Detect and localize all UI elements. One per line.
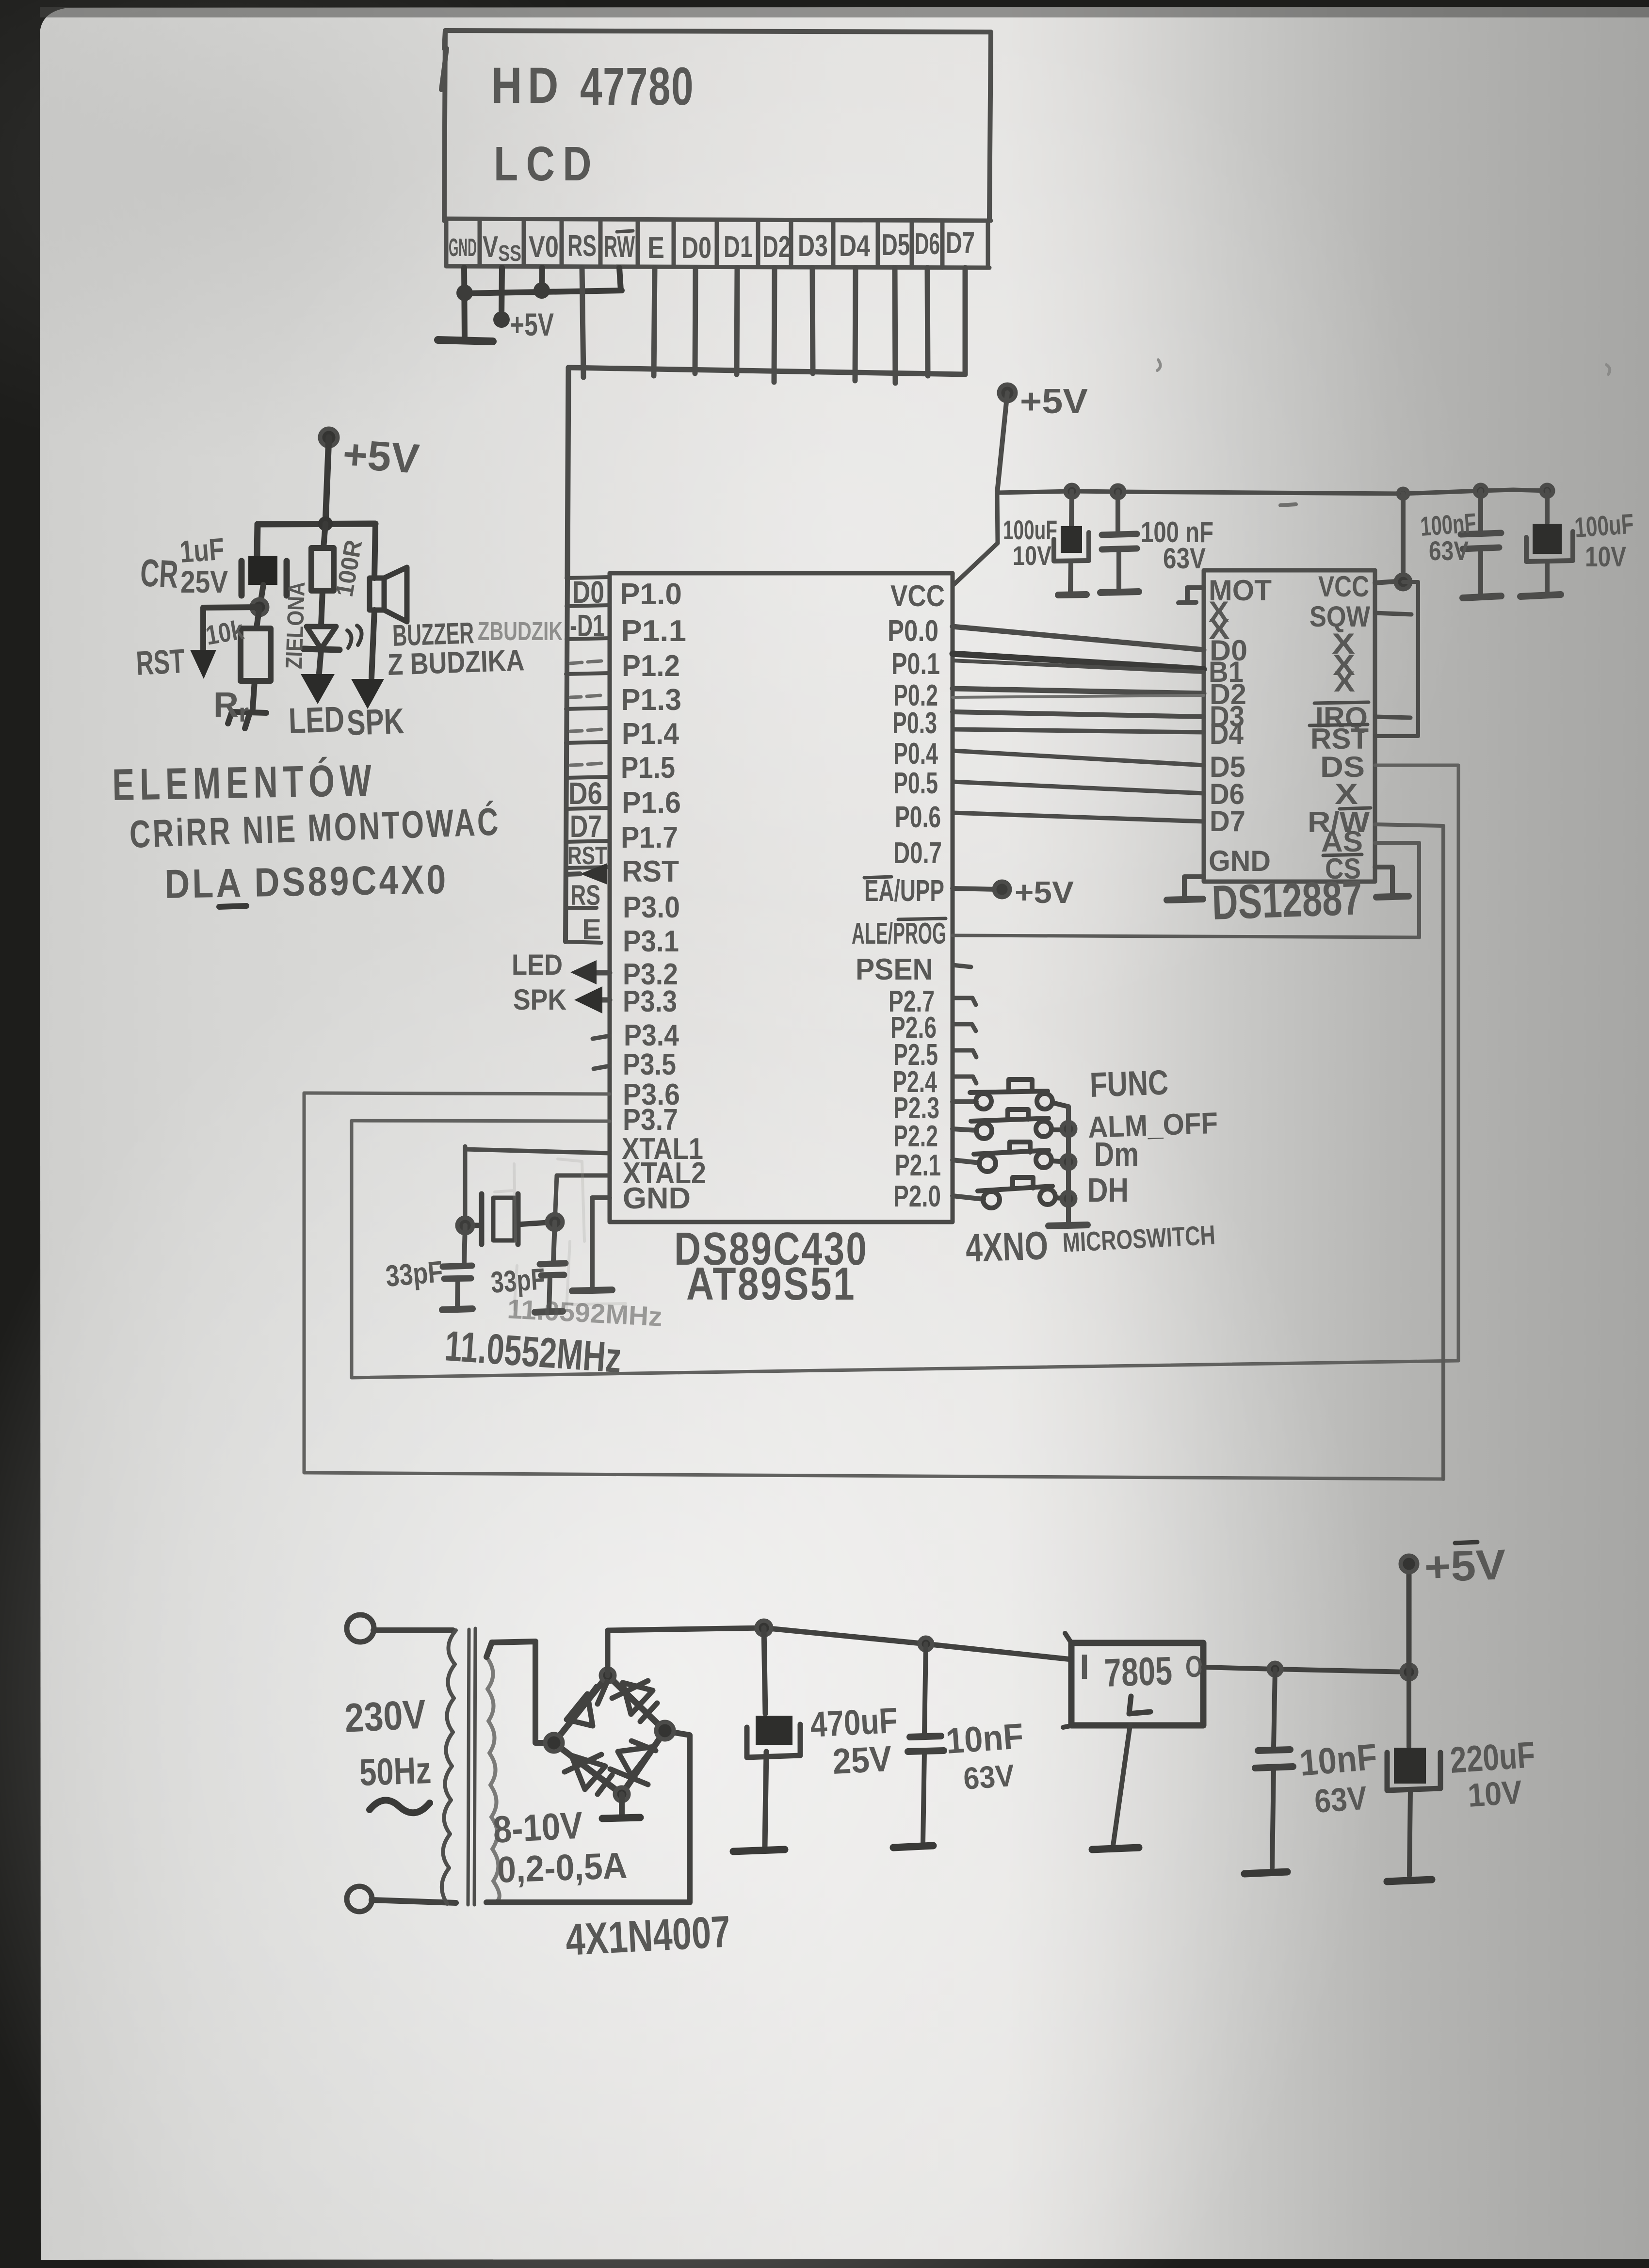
svg-text:VCC: VCC	[890, 579, 945, 613]
stub P3.5	[594, 1066, 610, 1069]
stub PSEN	[953, 965, 971, 967]
svg-text:10nF: 10nF	[944, 1716, 1024, 1761]
wire P3.7 to inner loop	[352, 1121, 610, 1121]
svg-text:SPK: SPK	[346, 701, 405, 743]
GND pin bracket to ground	[1184, 877, 1204, 898]
MCU right internal labels	[852, 579, 946, 1213]
svg-text:10V: 10V	[1585, 541, 1626, 573]
wire LCD D6 down to bus	[927, 268, 928, 376]
switch S1 FUNC	[970, 1079, 1068, 1109]
svg-text:0,2-0,5A: 0,2-0,5A	[497, 1845, 628, 1891]
junction crystal right	[547, 1214, 563, 1230]
svg-text:+5V: +5V	[1423, 1540, 1507, 1591]
svg-text:DS12887: DS12887	[1211, 870, 1363, 930]
wire P2.2 to switch S2	[953, 1129, 977, 1130]
svg-text:DH: DH	[1087, 1171, 1129, 1209]
node +5V top right	[999, 385, 1016, 401]
junction S3 on common	[1062, 1155, 1075, 1169]
end bar Rr lead	[228, 712, 266, 728]
svg-text:P3.1: P3.1	[623, 925, 679, 958]
svg-text:RST: RST	[135, 642, 186, 682]
wire P2.0 to switch S4	[953, 1196, 984, 1199]
diode D1 top-left	[566, 1682, 607, 1726]
overline RST	[1309, 724, 1368, 725]
junction dot GND wire	[456, 285, 473, 301]
switch S4 DH	[978, 1177, 1068, 1208]
wire VCC-RST tie bracket	[1375, 582, 1418, 736]
svg-text:8-10V: 8-10V	[492, 1803, 583, 1851]
svg-text:+5V: +5V	[1015, 875, 1074, 910]
node bridge bottom	[615, 1787, 629, 1801]
arrow RST output	[190, 650, 216, 679]
svg-text:HD: HD	[491, 57, 564, 114]
wire ALE/PROG to AS long link	[953, 935, 1419, 937]
wire secondary top to bridge left	[486, 1641, 553, 1743]
svg-text:P1.0: P1.0	[620, 578, 682, 611]
ground bar C3	[1463, 596, 1501, 598]
ground bar C1	[1058, 595, 1086, 595]
resistor 100R for LED	[323, 524, 325, 548]
svg-text:P1.7: P1.7	[621, 821, 678, 854]
arrow SPK output	[351, 679, 384, 709]
capacitor C1 100uF/10V electrolytic	[1071, 491, 1072, 526]
wire XTAL1 left	[465, 1149, 610, 1153]
junction dot V0 wire	[533, 282, 550, 299]
bus wire P0.7-D7	[953, 813, 1204, 821]
svg-text:P1.3: P1.3	[621, 683, 681, 717]
svg-text:+5V: +5V	[1020, 382, 1088, 421]
ground bar C4	[1520, 595, 1561, 596]
svg-text:RST: RST	[1310, 723, 1369, 755]
ground bar switch common	[1049, 1225, 1087, 1226]
stub P2.4	[953, 1077, 976, 1083]
bus wire P0.6-D6	[953, 782, 1204, 793]
junction CR-Rr-RST	[252, 599, 267, 615]
wire secondary bottom to bridge right	[486, 1731, 690, 1902]
junction rail-RTC VCC	[1398, 489, 1408, 499]
svg-text:D3: D3	[798, 229, 828, 263]
svg-text:D0: D0	[681, 231, 711, 265]
node bridge top	[601, 1669, 614, 1682]
wire terminal to primary top	[373, 1627, 453, 1633]
svg-text:P2.0: P2.0	[893, 1180, 941, 1213]
svg-text:D7: D7	[570, 809, 602, 844]
label AC tilde	[370, 1800, 430, 1813]
wire LCD D1 down to bus	[737, 268, 737, 374]
svg-text:D5: D5	[882, 228, 910, 262]
svg-text:P0.1: P0.1	[891, 647, 940, 681]
svg-text:10k: 10k	[203, 614, 246, 651]
svg-text:4XNO: 4XNO	[965, 1223, 1049, 1271]
stub IRQ	[1375, 717, 1410, 718]
svg-text:DLA DS89C4X0: DLA DS89C4X0	[164, 856, 449, 907]
wire RTC DS right and down to inner loop	[1375, 765, 1458, 1361]
wire LCD E down to bus	[654, 268, 655, 376]
svg-text:ALE/PROG: ALE/PROG	[852, 917, 946, 950]
svg-text:D6: D6	[568, 776, 602, 811]
LCD pin labels GND Vss V0 RS RW E D0-D7	[449, 226, 975, 266]
transformer TR1 primary terminal bottom	[347, 1886, 372, 1912]
stub P2.6	[953, 1024, 976, 1031]
wire RTC VCC to rail	[1375, 494, 1403, 583]
svg-text:25V: 25V	[831, 1738, 892, 1782]
svg-text:P3.5: P3.5	[623, 1048, 676, 1081]
wire RTC CS to ground	[1375, 867, 1392, 895]
svg-text:O: O	[1185, 1650, 1203, 1684]
wire LCD V0 down	[542, 268, 542, 290]
wire P3.6 to outer loop	[304, 1093, 610, 1094]
svg-text:EA/UPP: EA/UPP	[864, 874, 944, 908]
wire down to CR cap	[257, 524, 258, 557]
resistor Rr 10k	[257, 607, 259, 627]
junction rail-C7	[1269, 1663, 1281, 1675]
svg-text:SPK: SPK	[513, 983, 566, 1016]
wire RTC R/W right and down to outer loop	[1375, 824, 1443, 1479]
wire 7805 gnd down	[1113, 1725, 1130, 1846]
svg-text:10nF: 10nF	[1298, 1736, 1379, 1784]
svg-text:X: X	[1334, 665, 1355, 698]
junction +5V on link	[318, 516, 333, 531]
node +5V under Vss	[493, 311, 510, 328]
arrow SPK at P3.3	[574, 986, 602, 1013]
svg-text:P0.6: P0.6	[895, 801, 941, 834]
svg-text:P0.5: P0.5	[893, 767, 938, 800]
svg-text:63V: 63V	[962, 1758, 1016, 1796]
bus wire P0.3-D3	[953, 712, 1204, 717]
svg-text:FUNC: FUNC	[1089, 1063, 1169, 1105]
transformer TR1 primary winding	[442, 1630, 456, 1904]
node bridge left	[545, 1734, 563, 1752]
svg-text:E: E	[647, 231, 664, 265]
junction rail-C1	[1066, 485, 1078, 498]
capacitor C7 10nF/63V	[1274, 1669, 1275, 1748]
wire MCU P3.2 to LED arrow	[588, 970, 610, 976]
svg-text:P0.0: P0.0	[888, 614, 938, 648]
wire +5V riser	[1406, 1565, 1412, 1672]
svg-text:D4: D4	[839, 229, 870, 263]
capacitor C8 220uF/10V electrolytic	[1406, 1672, 1411, 1747]
wire P2.1 to switch S3	[953, 1160, 980, 1163]
svg-text:P3.4: P3.4	[624, 1019, 679, 1052]
RTC U2 DS12887 box	[1204, 570, 1375, 882]
svg-text:D6: D6	[915, 227, 940, 261]
svg-text:P2.2: P2.2	[893, 1120, 938, 1153]
MCU U1 DS89C430/AT89S51 box	[610, 573, 953, 1222]
junction rail-C3	[1475, 485, 1487, 497]
ground bar C2	[1100, 592, 1139, 593]
svg-text:I: I	[1080, 1648, 1089, 1687]
MCU left internal labels P1.0-P1.7 RST P3.0-P3.7 XTAL GND	[620, 578, 706, 1215]
capacitor CR 1uF/25V electrolytic	[242, 561, 287, 595]
diode D4 bottom-right	[610, 1741, 656, 1785]
stub P3.4	[593, 1036, 610, 1039]
svg-text:P1.6: P1.6	[622, 786, 681, 820]
ground bar 7805	[1092, 1848, 1139, 1850]
RTC right labels	[1308, 570, 1370, 885]
svg-text:P1.2: P1.2	[622, 649, 680, 683]
capacitor C3 100nF/63V	[1478, 491, 1483, 531]
junction rail-C5	[757, 1621, 771, 1635]
node +5V PSU output	[1401, 1556, 1417, 1572]
svg-text:-D1: -D1	[570, 608, 605, 643]
svg-text:4X1N4007: 4X1N4007	[565, 1907, 732, 1965]
outer return loop left/bottom (P3.6 to RTC R/W)	[304, 1093, 1443, 1479]
MOT pin bracket	[1179, 588, 1204, 603]
ground bar MCU GND	[572, 1290, 612, 1291]
ghost erased crystal sketch	[495, 1159, 626, 1309]
svg-text:X: X	[1335, 778, 1358, 810]
capacitor C2 100nF/63V	[1115, 492, 1120, 532]
ground bar C8	[1387, 1880, 1432, 1882]
svg-text:P2.1: P2.1	[895, 1149, 941, 1182]
bridge rectifier diamond	[554, 1675, 665, 1794]
node +5V left circuit	[320, 429, 338, 446]
svg-text:+5V: +5V	[510, 306, 554, 342]
wire LCD D2 down to bus	[774, 268, 775, 382]
wire EA/UPP to +5V	[953, 888, 998, 889]
svg-text:220uF: 220uF	[1449, 1734, 1536, 1781]
svg-text:P3.0: P3.0	[623, 891, 680, 924]
junction rail-C4	[1541, 485, 1553, 497]
transformer TR1 primary terminal top	[347, 1615, 374, 1642]
svg-text:AT89S51: AT89S51	[686, 1258, 856, 1310]
LCD pin header row	[444, 219, 991, 268]
wire LCD D0 down to bus	[695, 268, 695, 373]
wire XTAL2 left	[557, 1174, 610, 1178]
wire XTAL1 down to crystal	[463, 1146, 468, 1225]
wire LCD GND pin down	[438, 268, 622, 341]
capacitor C 33pF left	[464, 1225, 465, 1264]
svg-text:D7: D7	[1210, 805, 1245, 837]
wire switch common down	[1066, 1107, 1071, 1222]
wire LCD D4 down to bus	[855, 268, 856, 381]
diode D3 bottom-left	[565, 1754, 612, 1794]
7805 gnd pin hook	[1129, 1696, 1150, 1714]
svg-text:PSEN: PSEN	[856, 953, 933, 986]
bus wire P0.2-D2	[953, 689, 1204, 693]
LCD module HD47780 outline	[441, 31, 991, 221]
wire rail to MCU VCC	[954, 493, 998, 585]
ground bar bridge	[602, 1818, 640, 1818]
svg-text:D0: D0	[572, 575, 604, 610]
dash marks unused bus pins	[570, 661, 601, 765]
svg-text:Z BUDZIKA: Z BUDZIKA	[387, 643, 525, 682]
wire bridge top to DC rail	[608, 1628, 1071, 1675]
wire +5V drop to rail	[997, 393, 1007, 493]
svg-text:+5V: +5V	[341, 431, 421, 483]
overline EA	[864, 877, 891, 878]
LED D1 zielona	[307, 627, 336, 649]
RTC left labels	[1209, 574, 1272, 877]
svg-text:10V: 10V	[1467, 1773, 1523, 1814]
svg-text:63V: 63V	[1429, 535, 1469, 566]
svg-text:P1.4: P1.4	[622, 717, 679, 751]
stray pencil mark	[1280, 504, 1296, 505]
svg-text:RS: RS	[570, 880, 600, 911]
ground bar LCD GND	[438, 340, 493, 341]
wire LCD D5 down to bus	[895, 268, 895, 383]
svg-text:P0.4: P0.4	[893, 737, 938, 771]
svg-text:ELEMENTÓW: ELEMENTÓW	[112, 756, 377, 810]
svg-text:CR: CR	[139, 551, 179, 596]
wire 7805 output rail	[1203, 1667, 1409, 1672]
wire terminal to primary bottom	[372, 1900, 456, 1903]
inner return loop left/bottom (P3.7 to RTC DS)	[352, 1121, 1458, 1378]
svg-text:E: E	[582, 914, 601, 945]
wire RTC AS right and down to ALE	[1375, 843, 1419, 937]
bus wire P0.5-D5	[953, 751, 1204, 765]
svg-text:D1: D1	[724, 230, 753, 264]
node bridge right	[656, 1722, 674, 1739]
wire +5V down	[325, 437, 329, 524]
svg-text:D4: D4	[1210, 718, 1244, 750]
diode D2 top-right	[612, 1681, 657, 1721]
capacitor C5 470uF/25V electrolytic	[764, 1628, 765, 1714]
svg-text:P3.7: P3.7	[623, 1103, 678, 1137]
svg-text:D2: D2	[762, 230, 791, 264]
overline PROG	[898, 918, 946, 919]
ground bar 33pF left	[442, 1309, 472, 1310]
arrow LED output	[301, 674, 335, 704]
svg-text:63V: 63V	[1313, 1780, 1368, 1820]
wire +5V rail top right	[997, 490, 1547, 494]
wire junction to RST arrow	[203, 607, 259, 650]
junction rail-C8/+5V	[1402, 1665, 1416, 1679]
overline IRQ	[1314, 702, 1369, 703]
wire LCD D7 down to bus	[963, 268, 968, 374]
svg-text:P1.5: P1.5	[621, 751, 675, 785]
svg-text:D7: D7	[946, 226, 975, 260]
svg-text:7805: 7805	[1103, 1649, 1173, 1695]
junction RTC VCC	[1396, 575, 1410, 589]
svg-text:V0: V0	[529, 230, 559, 264]
stub P2.7	[953, 998, 976, 1005]
ground bar CS	[1376, 896, 1408, 897]
bus wire P0.1-D1 (heavy)	[953, 654, 1204, 669]
svg-text:Dm: Dm	[1094, 1135, 1139, 1173]
svg-text:GND: GND	[449, 234, 477, 262]
svg-text:25V: 25V	[180, 564, 228, 599]
overline CS	[1323, 854, 1362, 855]
wire top link CR-LED-buzzer	[258, 524, 375, 524]
arrow LED at P3.2	[570, 960, 597, 984]
stub SQW	[1375, 613, 1411, 614]
svg-text:GND: GND	[623, 1182, 691, 1215]
stub P2.5	[953, 1050, 976, 1057]
junction S2 on common	[1062, 1122, 1075, 1136]
transformer TR1 secondary winding	[486, 1657, 500, 1902]
overline W of R/W	[1340, 808, 1371, 809]
ground bar 33pF right	[535, 1311, 563, 1312]
svg-text:33pF: 33pF	[384, 1255, 444, 1293]
bus wire P0.0-D0	[953, 627, 1204, 650]
svg-text:63V: 63V	[1163, 542, 1206, 575]
svg-text:GND: GND	[1209, 845, 1271, 877]
wire ground link GND-V0-RW	[465, 290, 622, 293]
bus wire P0.4-D4	[953, 729, 1204, 732]
ground bar RTC GND	[1167, 899, 1203, 900]
svg-text:10V: 10V	[1013, 540, 1051, 571]
wire LCD D3 down to bus	[812, 268, 813, 373]
svg-text:47780: 47780	[580, 57, 694, 116]
ground bar C6	[893, 1846, 933, 1848]
buzzer BZ1	[374, 524, 375, 578]
svg-text:ZBUDZIK: ZBUDZIK	[478, 617, 563, 646]
capacitor C 33pF right	[553, 1222, 555, 1262]
svg-text:RW: RW	[604, 230, 635, 264]
transformer core	[468, 1628, 475, 1905]
wire MCU P3.3 to SPK arrow	[601, 997, 610, 1003]
svg-text:P3.3: P3.3	[623, 985, 677, 1018]
capacitor C4 100uF/10V electrolytic	[1545, 491, 1550, 523]
svg-text:LCD: LCD	[494, 137, 599, 191]
ground bar C7	[1245, 1872, 1287, 1874]
overline RW	[617, 231, 633, 232]
svg-text:LED: LED	[288, 699, 345, 741]
regulator U3 7805 box	[1071, 1643, 1203, 1725]
svg-text:50Hz: 50Hz	[359, 1749, 432, 1794]
svg-text:230V: 230V	[343, 1691, 427, 1741]
node +5V at EA/UPP	[994, 882, 1010, 897]
wire LCD data bus horizontal	[568, 368, 965, 374]
svg-text:D0.7: D0.7	[893, 836, 942, 870]
wire LCD RS down to bus	[582, 268, 583, 377]
arrow RST into MCU	[580, 863, 607, 885]
wire bridge bottom to ground	[619, 1794, 625, 1815]
junction rail-C2	[1112, 485, 1124, 498]
svg-text:1uF: 1uF	[178, 531, 226, 569]
junction crystal left	[457, 1218, 473, 1233]
svg-text:470uF: 470uF	[809, 1700, 898, 1745]
ground bar C5	[733, 1850, 785, 1851]
wire LCD RW down-bend	[619, 268, 621, 290]
MCU left pin-box column rail	[566, 578, 567, 942]
overline 5	[1455, 1542, 1477, 1543]
sound wave marks	[347, 626, 362, 648]
paper shading highlight	[0, 873, 1382, 2268]
junction rail-C6	[920, 1638, 932, 1650]
crystal X1 11.0592MHz	[465, 1194, 555, 1244]
svg-text:LED: LED	[512, 949, 563, 981]
svg-text:RST: RST	[622, 855, 679, 888]
junction S4 on common	[1062, 1192, 1075, 1206]
svg-text:VCC: VCC	[1318, 570, 1369, 603]
wire LCD Vss to +5V	[501, 268, 502, 318]
svg-text:ZIELONA: ZIELONA	[281, 581, 310, 670]
capacitor C6 10nF/63V	[924, 1644, 926, 1734]
svg-text:RS: RS	[567, 229, 597, 263]
underline under A	[219, 906, 246, 907]
wire XTAL2 down to crystal	[555, 1175, 557, 1222]
wire P2.3 to switch S1	[953, 1099, 976, 1104]
switch S3 Dm	[974, 1142, 1068, 1172]
MCU pin box dividers	[566, 577, 610, 943]
wire data bus vertical to MCU pin boxes	[567, 368, 568, 578]
svg-text:100uF: 100uF	[1573, 508, 1634, 544]
svg-text:P0.3: P0.3	[892, 707, 937, 740]
svg-text:P1.1: P1.1	[621, 614, 686, 648]
switch S2 ALM_OFF	[971, 1110, 1068, 1139]
wire MCU GND pin down	[592, 1198, 610, 1289]
